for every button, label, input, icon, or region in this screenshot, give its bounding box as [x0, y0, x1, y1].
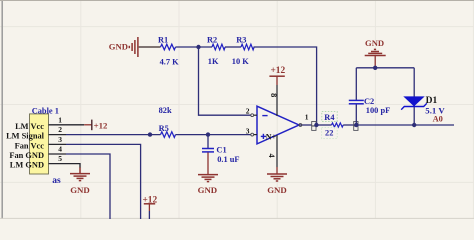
- wire divider node down to op-amp inverting input: [199, 47, 251, 115]
- node junction R5 left: [148, 132, 152, 136]
- svg-text:Fan GND: Fan GND: [9, 151, 44, 160]
- node junction C2: [354, 123, 358, 127]
- pin 2 stub: [254, 114, 257, 116]
- wire C2 node to D1 node: [356, 124, 414, 126]
- capacitor C1: [207, 135, 209, 149]
- pin 1 output: [299, 124, 312, 126]
- node junction output/R3/R4: [314, 123, 318, 127]
- diode D1 (zener): [413, 68, 415, 125]
- svg-text:100 pF: 100 pF: [366, 106, 390, 115]
- svg-text:GND: GND: [70, 185, 90, 195]
- pin 4 stub: [276, 135, 278, 167]
- svg-text:R4: R4: [324, 113, 335, 122]
- svg-text:1: 1: [58, 115, 62, 124]
- svg-text:LM Signal: LM Signal: [6, 132, 45, 141]
- ground GND below pin5: [70, 167, 90, 180]
- svg-text:N+: N+: [266, 133, 277, 142]
- svg-text:GND: GND: [109, 41, 128, 51]
- svg-text:C1: C1: [216, 146, 226, 155]
- resistor R5: [161, 132, 176, 138]
- svg-text:4: 4: [267, 154, 276, 158]
- svg-text:as: as: [52, 176, 61, 186]
- svg-text:4.7 K: 4.7 K: [160, 58, 180, 67]
- svg-text:+12: +12: [94, 120, 108, 130]
- svg-text:5.1 V: 5.1 V: [425, 106, 445, 116]
- node junction C1 tap: [206, 132, 210, 136]
- wire R4 to C2 node: [343, 124, 356, 126]
- svg-text:D1: D1: [426, 96, 438, 106]
- pin 3 stub: [254, 134, 257, 136]
- wire Fan GND down: [66, 154, 110, 219]
- wire R3 to feedback corner: [254, 47, 317, 125]
- svg-text:1: 1: [305, 113, 309, 122]
- svg-text:GND: GND: [198, 185, 218, 195]
- wire pin5 to ground: [66, 164, 80, 168]
- svg-text:4: 4: [58, 145, 62, 154]
- resistor R2: [212, 44, 225, 50]
- wire output to A0: [414, 124, 454, 126]
- svg-text:LM GND: LM GND: [10, 161, 44, 170]
- svg-text:LM Vcc: LM Vcc: [15, 122, 44, 131]
- svg-text:10 K: 10 K: [232, 57, 249, 66]
- resistor R1: [161, 44, 176, 50]
- ground GND below op-amp: [276, 167, 278, 174]
- svg-text:3: 3: [246, 126, 250, 135]
- wire R1 to R2: [176, 46, 213, 48]
- wire +12 bottom down: [148, 211, 150, 219]
- svg-text:A0: A0: [433, 114, 443, 123]
- net tie squares at output node: [312, 122, 316, 126]
- node junction GND / top rail: [373, 66, 377, 70]
- ground GND below C1: [207, 153, 209, 175]
- svg-text:0.1 uF: 0.1 uF: [217, 155, 239, 164]
- node junction R1/R2: [196, 45, 200, 49]
- wire LM Signal to R5: [66, 134, 161, 136]
- op-amp U1: [257, 106, 299, 144]
- svg-text:GND: GND: [267, 185, 287, 195]
- svg-text:3: 3: [58, 135, 62, 144]
- pin 3: [49, 143, 67, 145]
- ground GND top-left (sideways): [129, 37, 138, 57]
- svg-text:82k: 82k: [159, 106, 172, 115]
- wire R5 to op-amp noninverting input: [176, 134, 251, 136]
- resistor R3: [241, 44, 254, 50]
- pin 4: [49, 153, 67, 155]
- svg-text:22: 22: [325, 129, 333, 138]
- svg-text:Fan Vcc: Fan Vcc: [15, 141, 45, 150]
- svg-text:R2: R2: [207, 36, 217, 45]
- svg-text:R5: R5: [159, 124, 169, 133]
- svg-text:1K: 1K: [208, 57, 219, 66]
- pin 8 stub: [276, 85, 278, 116]
- wire GND to R1: [139, 46, 161, 48]
- svg-text:GND: GND: [365, 38, 384, 48]
- node junction D1: [412, 123, 416, 127]
- svg-text:5: 5: [58, 154, 62, 163]
- svg-text:2: 2: [246, 107, 250, 116]
- wire Fan Vcc down: [66, 144, 141, 219]
- pin 1: [49, 124, 85, 126]
- pin 2: [49, 134, 67, 136]
- svg-text:+12: +12: [270, 66, 285, 76]
- wire node to R4: [316, 124, 331, 126]
- net tie squares at C2 node: [354, 122, 358, 126]
- power +12 at pin1: [84, 124, 92, 126]
- wire top rail C2 to D1: [356, 67, 414, 69]
- capacitor C2: [355, 68, 357, 100]
- svg-text:R3: R3: [236, 36, 246, 45]
- pin 5: [49, 163, 67, 165]
- resistor R4: [332, 123, 344, 127]
- svg-text:8: 8: [269, 93, 278, 97]
- svg-text:R1: R1: [158, 35, 168, 44]
- wire R2 to R3: [225, 46, 241, 48]
- svg-text:2: 2: [58, 125, 62, 134]
- svg-text:C2: C2: [364, 97, 374, 106]
